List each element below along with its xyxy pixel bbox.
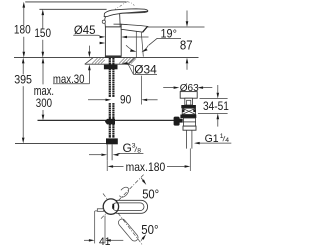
aerator (142, 26, 148, 32)
svg-text:395: 395 (14, 73, 32, 87)
dimension max.300 (42, 63, 44, 114)
svg-text:87: 87 (180, 37, 193, 52)
dimension 41 (94, 211, 96, 243)
plan view faucet (111, 200, 148, 213)
svg-text:41: 41 (99, 236, 110, 247)
50 degree label arrows (141, 178, 144, 182)
drain neck (185, 98, 193, 105)
svg-text:Ø63: Ø63 (180, 83, 199, 94)
faucet base gasket (105, 56, 122, 58)
lever underside shading (119, 11, 148, 14)
spout (121, 24, 148, 32)
countertop cross-section (85, 58, 135, 65)
supply end baseline (395) (15, 142, 107, 144)
dimension max.180 (107, 165, 113, 168)
label G3/8 (89, 154, 101, 156)
countertop surface line (14, 57, 199, 59)
plan view swivel rays (101, 175, 144, 245)
drain connector (184, 122, 196, 126)
dimension 90 (88, 99, 106, 101)
label G1 1/4 (194, 142, 200, 145)
lower connector nut (106, 138, 118, 144)
drain plug top (180, 92, 197, 99)
svg-text:180: 180 (14, 23, 31, 37)
svg-text:300: 300 (36, 96, 52, 110)
mounting nut (104, 65, 118, 70)
drain flange ring (181, 105, 196, 108)
19 degree construct (126, 31, 157, 57)
dome button (102, 20, 105, 23)
extension line lever rest height (150) (39, 8, 106, 10)
pop-up rod (38, 119, 175, 121)
svg-text:34-51: 34-51 (203, 99, 229, 113)
svg-text:50°: 50° (142, 187, 159, 202)
svg-text:Ø45: Ø45 (74, 23, 96, 37)
extension line lever max height (180) (25, 1, 126, 3)
svg-text:90: 90 (120, 93, 131, 107)
max180 left extension (106, 160, 108, 171)
rod-shank connector (105, 119, 115, 125)
dimension 34-51 (200, 98, 228, 100)
svg-text:3: 3 (132, 142, 136, 149)
faucet body (105, 27, 121, 56)
lever raised phantom (dash-dot) (114, 2, 135, 11)
drain lower band (183, 118, 195, 122)
threaded shank (108, 58, 115, 138)
svg-text:50°: 50° (141, 222, 158, 237)
dimension max.30 (88, 46, 90, 53)
pop-up rod ball joint (174, 117, 180, 126)
svg-text:1: 1 (220, 133, 224, 140)
supply tube G3/8 (107, 144, 112, 160)
dimension 180 (23, 7, 25, 52)
svg-text:4: 4 (225, 137, 229, 144)
svg-text:150: 150 (34, 26, 51, 40)
cartridge dome (105, 13, 120, 27)
drain body with cross (182, 108, 195, 114)
svg-text:19°: 19° (161, 29, 177, 41)
drain tailpipe (186, 130, 192, 148)
phantom lever +50 (120, 187, 129, 197)
lever handle (104, 9, 148, 17)
plan spout tab (97, 209, 103, 212)
phantom lever -50 (117, 218, 140, 243)
dimension 150 (42, 15, 44, 52)
dimension 87 (186, 11, 188, 22)
drain locknut (180, 115, 196, 119)
svg-text:G: G (123, 141, 132, 155)
dimension 395 (22, 63, 24, 137)
svg-text:max.180: max.180 (126, 160, 166, 174)
spout outlet level line (148, 26, 205, 28)
svg-text:G1: G1 (205, 133, 219, 145)
extension line under Ø34 (141, 76, 143, 105)
